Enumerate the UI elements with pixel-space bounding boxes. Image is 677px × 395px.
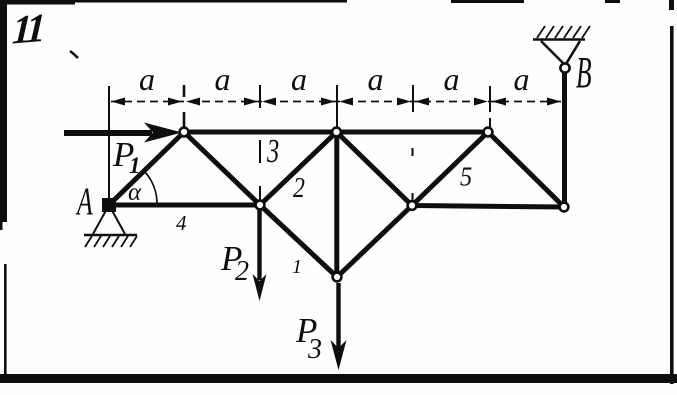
- svg-text:4: 4: [176, 211, 187, 235]
- dimension arrowheads: [111, 98, 561, 106]
- member 5: B3-T3 diagonal: [412, 132, 488, 206]
- member A-T1 diagonal: [109, 132, 184, 205]
- truss members: [109, 70, 565, 277]
- svg-text:1: 1: [292, 256, 302, 278]
- angle alpha arc: [145, 172, 157, 205]
- node T2: [332, 128, 341, 137]
- figure number 11: [11, 5, 78, 58]
- svg-text:3: 3: [307, 334, 322, 365]
- node T1: [180, 128, 189, 137]
- node B3: [408, 201, 417, 210]
- svg-text:a: a: [291, 61, 307, 97]
- svg-text:3: 3: [266, 133, 279, 170]
- force P1 arrow: [64, 123, 182, 143]
- svg-text:A: A: [75, 181, 93, 223]
- node B2: [256, 201, 265, 210]
- node C: [333, 273, 342, 282]
- top chord T1-T3: [184, 130, 488, 135]
- svg-text:a: a: [139, 61, 155, 97]
- svg-text:1: 1: [129, 153, 141, 178]
- node B4: [560, 203, 569, 212]
- label P2: [220, 239, 249, 287]
- member 2: B2-T2 diagonal: [260, 132, 337, 205]
- svg-text:a: a: [444, 61, 460, 97]
- dimension line with a spacings: [111, 101, 562, 103]
- force P3 arrow: [331, 283, 347, 370]
- svg-text:5: 5: [460, 161, 472, 191]
- svg-text:a: a: [514, 61, 530, 97]
- svg-text:11: 11: [11, 5, 44, 53]
- support A (pin with hatching): [84, 198, 137, 247]
- member 4: A-B2 bottom chord: [109, 203, 260, 208]
- label P1: [112, 135, 141, 178]
- member B4-B support link: [562, 70, 567, 207]
- svg-text:a: a: [215, 61, 231, 97]
- member 1: B2-C diagonal: [260, 205, 337, 277]
- svg-text:2: 2: [293, 172, 305, 203]
- dimension ticks / projection lines: [109, 85, 490, 205]
- member T2-C vertical: [334, 132, 339, 277]
- node T3: [484, 128, 493, 137]
- member T1-B2 diagonal: [184, 132, 260, 205]
- bottom chord B3-B4: [412, 206, 564, 208]
- label P3: [295, 311, 322, 365]
- member T3-B4 diagonal: [488, 132, 564, 207]
- svg-text:2: 2: [235, 256, 249, 287]
- svg-text:α: α: [128, 179, 142, 206]
- svg-text:a: a: [368, 61, 384, 97]
- member C-B3 diagonal: [337, 206, 412, 278]
- force P2 arrow: [253, 210, 267, 301]
- support B (hanger with hatching): [533, 26, 590, 73]
- member T2-B3 diagonal: [337, 132, 413, 206]
- svg-text:B: B: [576, 48, 592, 97]
- truss joints (pins): [180, 128, 569, 282]
- dimension labels a: [139, 61, 530, 97]
- pin B: [560, 63, 569, 72]
